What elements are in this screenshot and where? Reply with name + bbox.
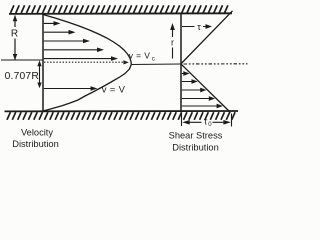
svg-text:v = V: v = V [129, 51, 151, 61]
svg-text:0: 0 [208, 122, 212, 128]
svg-text:r: r [171, 38, 174, 48]
svg-text:τ: τ [204, 117, 208, 127]
svg-text:c: c [152, 57, 155, 63]
svg-text:Distribution: Distribution [12, 139, 59, 149]
svg-text:v = V: v = V [102, 84, 126, 95]
svg-text:0.707R: 0.707R [5, 71, 39, 82]
svg-text:τ: τ [197, 22, 201, 33]
svg-text:R: R [11, 29, 18, 40]
svg-text:Velocity: Velocity [21, 128, 53, 138]
svg-text:Shear Stress: Shear Stress [169, 130, 223, 140]
svg-text:Distribution: Distribution [172, 142, 219, 152]
